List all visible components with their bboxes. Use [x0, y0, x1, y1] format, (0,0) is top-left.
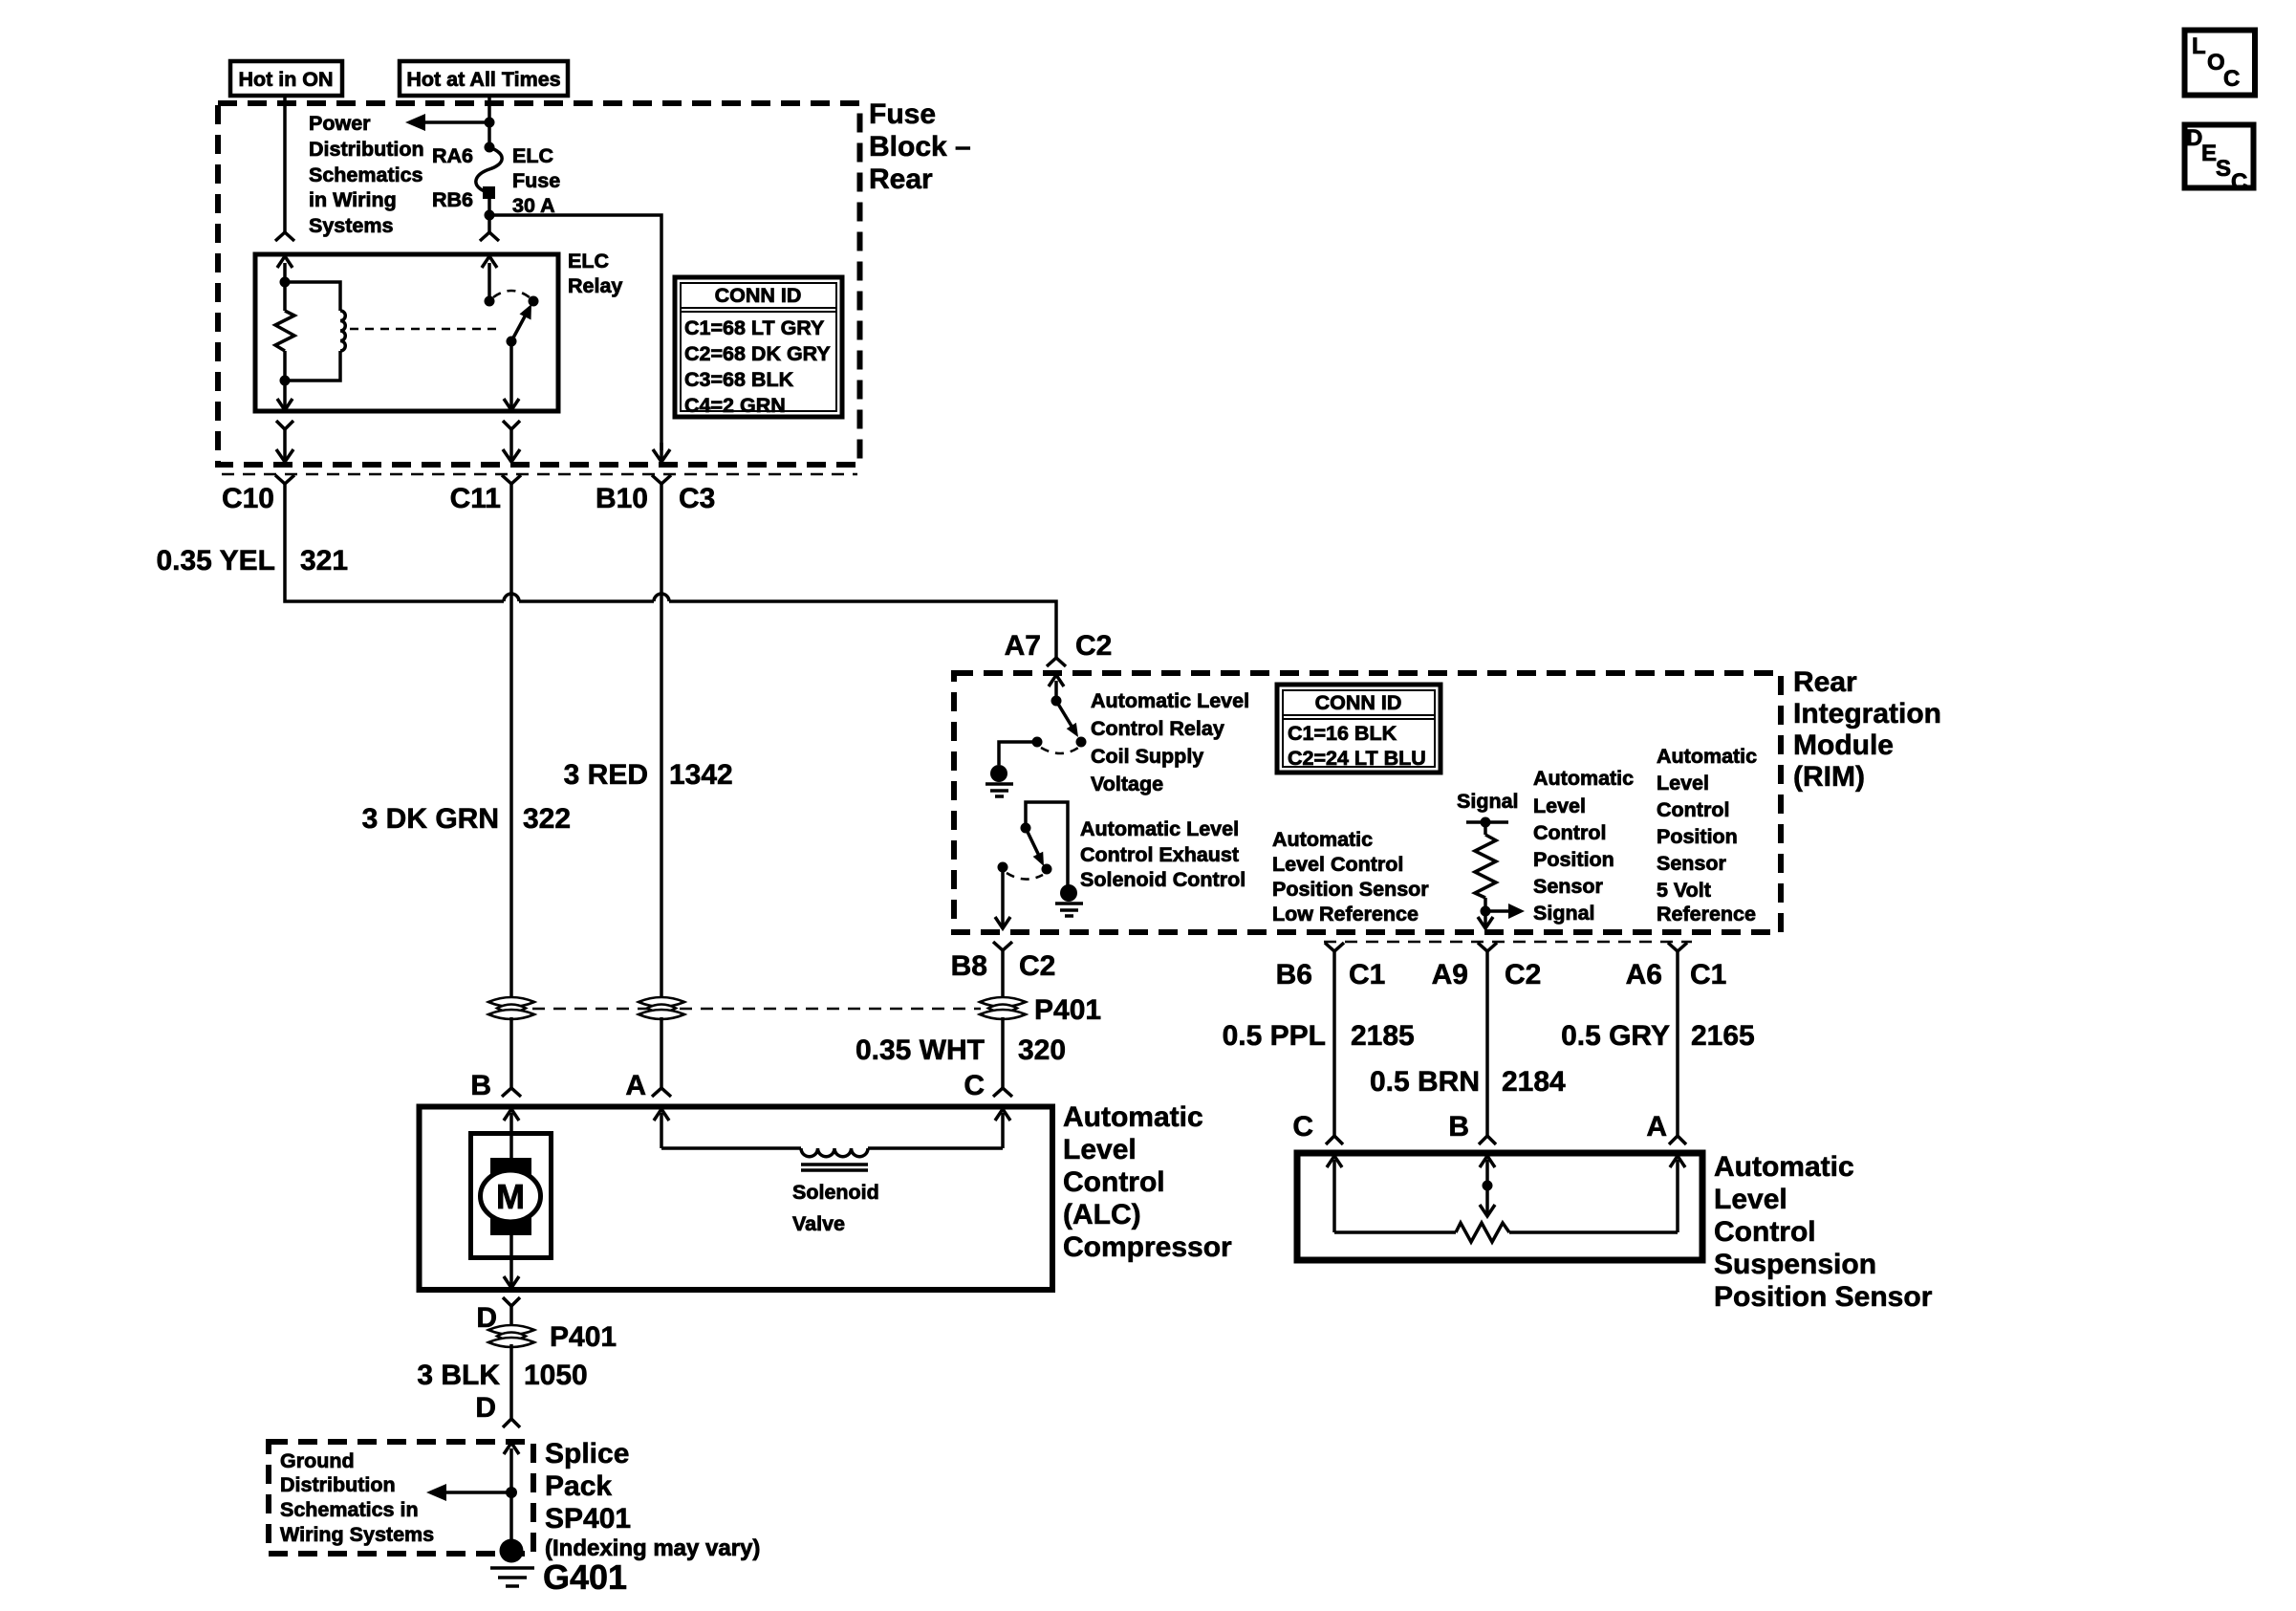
svg-text:RA6: RA6	[432, 144, 473, 167]
connector chevron A6/C1	[1668, 943, 1687, 951]
sensor C leg	[1332, 1160, 1336, 1232]
label Rear Integration Module (RIM)	[1793, 666, 1941, 793]
svg-text:5 Volt: 5 Volt	[1657, 879, 1711, 902]
inline connector P401 (B10 wire)	[639, 997, 684, 1019]
wire motor out	[509, 1235, 513, 1288]
svg-text:321: 321	[300, 545, 348, 577]
wire C11 down	[509, 484, 513, 998]
wire power distribution arrow	[417, 120, 489, 124]
connector chevron at A7	[1047, 658, 1066, 666]
relay switch: entry arrow	[487, 263, 491, 301]
text Automatic Level Control Exhaust Solenoid Control	[1080, 817, 1245, 891]
RIM dashed box	[954, 673, 1781, 932]
svg-text:Hot in ON: Hot in ON	[238, 68, 333, 91]
svg-text:A6: A6	[1626, 959, 1662, 991]
dashed arc exhaust	[1007, 873, 1043, 880]
svg-text:Schematics in: Schematics in	[280, 1498, 419, 1521]
svg-text:Solenoid: Solenoid	[792, 1181, 879, 1204]
svg-text:G401: G401	[543, 1557, 627, 1597]
thin dashed connector line under RIM	[1324, 941, 1692, 944]
svg-text:C2=68 DK GRY: C2=68 DK GRY	[684, 342, 831, 365]
label Splice Pack SP401 (Indexing may vary)	[545, 1438, 760, 1561]
svg-text:2185: 2185	[1351, 1020, 1415, 1052]
connector chevron C11	[502, 475, 521, 484]
signal arrow right	[1485, 909, 1512, 913]
svg-text:A7: A7	[1005, 630, 1041, 662]
svg-text:0.35 YEL: 0.35 YEL	[156, 545, 275, 577]
svg-text:Pack: Pack	[545, 1470, 612, 1502]
node exhaust output	[998, 862, 1008, 873]
node splice junction	[506, 1487, 517, 1498]
svg-text:D: D	[2186, 125, 2202, 151]
wire Hot at All Times drop	[487, 96, 491, 147]
text Power Distribution Schematics	[309, 112, 424, 237]
svg-text:Schematics: Schematics	[309, 163, 423, 186]
svg-text:C: C	[2231, 169, 2247, 195]
svg-text:Suspension: Suspension	[1714, 1249, 1876, 1280]
connector chevrons into compressor	[502, 1088, 521, 1097]
svg-text:Automatic: Automatic	[1272, 828, 1373, 851]
CONN ID box (RIM)	[1277, 685, 1440, 773]
svg-text:Position Sensor: Position Sensor	[1272, 878, 1429, 901]
node switch common	[485, 296, 495, 307]
svg-text:C1: C1	[1349, 959, 1385, 991]
dashed arc	[1041, 748, 1078, 753]
svg-text:CONN ID: CONN ID	[715, 284, 802, 307]
compressor A entry arrow / solenoid valve	[660, 1113, 663, 1148]
svg-text:0.5 PPL: 0.5 PPL	[1223, 1020, 1326, 1052]
svg-text:0.5 BRN: 0.5 BRN	[1370, 1066, 1480, 1098]
svg-text:Control: Control	[1063, 1166, 1165, 1198]
svg-text:C4=2 GRN: C4=2 GRN	[684, 394, 786, 417]
svg-text:C3=68 BLK: C3=68 BLK	[684, 368, 794, 391]
svg-text:3 DK GRN: 3 DK GRN	[362, 803, 499, 835]
svg-text:Position: Position	[1657, 825, 1738, 848]
relay box	[255, 254, 558, 411]
svg-text:Distribution: Distribution	[309, 138, 424, 161]
node signal out	[1481, 906, 1491, 917]
svg-text:S: S	[2216, 156, 2231, 182]
svg-text:SP401: SP401	[545, 1503, 631, 1535]
CONN ID box (fuse block)	[675, 277, 842, 417]
svg-text:322: 322	[523, 803, 571, 835]
svg-text:Wiring Systems: Wiring Systems	[280, 1523, 434, 1546]
label ELC Relay	[568, 250, 622, 297]
svg-text:Compressor: Compressor	[1063, 1231, 1232, 1263]
ground (exhaust)	[1060, 884, 1077, 902]
wire relay switch output below box	[503, 421, 520, 429]
svg-text:Voltage: Voltage	[1091, 773, 1163, 795]
wires down to compressor	[509, 1017, 513, 1088]
svg-text:in Wiring: in Wiring	[309, 188, 397, 211]
connector chevrons into suspension sensor	[1326, 1136, 1343, 1144]
connector chevron into relay (left)	[275, 232, 294, 241]
svg-text:Control: Control	[1533, 821, 1606, 844]
bus wire to RIM	[669, 601, 1056, 658]
Hot in ON box	[230, 61, 342, 96]
node coil bottom	[280, 376, 291, 386]
sensor A leg	[1676, 1160, 1679, 1232]
wire switch output	[509, 341, 513, 408]
label Automatic Level Control Suspension Position Sensor	[1714, 1151, 1933, 1313]
svg-text:B: B	[470, 1070, 491, 1101]
svg-text:Position Sensor: Position Sensor	[1714, 1281, 1933, 1313]
bus wire segment	[519, 599, 654, 603]
hop over C11 wire	[504, 594, 519, 601]
label Fuse Block - Rear	[869, 98, 971, 195]
splice pack dashed box	[269, 1442, 533, 1554]
label Automatic Level Control (ALC) Compressor	[1063, 1101, 1232, 1263]
ground (coil supply)	[990, 765, 1007, 782]
node power junction	[485, 118, 495, 128]
svg-text:B8: B8	[951, 950, 987, 982]
wire contact to ground	[999, 742, 1037, 765]
svg-text:C2: C2	[1019, 950, 1055, 982]
svg-text:E: E	[2201, 141, 2217, 166]
DESC box	[2185, 125, 2254, 196]
wire coil to bottom arrow	[283, 381, 287, 408]
compressor B entry arrow	[509, 1113, 513, 1134]
dashed arc between contacts	[493, 291, 530, 297]
node coil top	[280, 277, 291, 288]
svg-text:P401: P401	[1034, 994, 1101, 1026]
text Automatic Level Control Relay Coil Supply Voltage	[1091, 689, 1249, 795]
LOC box	[2185, 31, 2256, 96]
svg-text:C1=16 BLK: C1=16 BLK	[1288, 722, 1397, 745]
wire fuse output	[487, 192, 491, 232]
RIM entry arrow A7	[1054, 681, 1058, 701]
svg-text:2165: 2165	[1691, 1020, 1755, 1052]
svg-text:D: D	[475, 1392, 496, 1424]
text Automatic Level Control Position Sensor 5 Volt Reference	[1657, 745, 1757, 925]
svg-text:Sensor: Sensor	[1533, 875, 1604, 898]
svg-text:Signal: Signal	[1533, 902, 1595, 925]
connector chevron C10	[275, 475, 294, 484]
wire D below compressor	[503, 1297, 520, 1306]
svg-text:C: C	[964, 1070, 985, 1101]
svg-text:A9: A9	[1432, 959, 1468, 991]
svg-text:Position: Position	[1533, 848, 1614, 871]
relay armature arrow	[511, 316, 525, 341]
inline connector P401 (ground wire)	[488, 1325, 534, 1347]
svg-text:Ground: Ground	[280, 1449, 355, 1472]
node contact	[1076, 737, 1087, 748]
svg-text:Systems: Systems	[309, 214, 393, 237]
splice ball SP401	[500, 1539, 524, 1563]
position sensor signal tap	[1466, 820, 1508, 824]
wire below P401	[509, 1344, 513, 1419]
connector chevron into relay (fuse leg)	[480, 232, 499, 241]
switch arm (coil supply)	[1056, 701, 1072, 728]
svg-text:Valve: Valve	[792, 1212, 845, 1235]
svg-text:Integration: Integration	[1793, 698, 1941, 729]
svg-text:C1: C1	[1690, 959, 1726, 991]
arrow down at fuse block border (B10)	[653, 449, 670, 462]
svg-text:Automatic Level: Automatic Level	[1091, 689, 1249, 712]
connector chevron B6/C1	[1325, 943, 1344, 951]
svg-text:3 BLK: 3 BLK	[417, 1360, 500, 1391]
svg-text:B10: B10	[596, 483, 648, 514]
svg-text:0.5 GRY: 0.5 GRY	[1561, 1020, 1670, 1052]
svg-text:O: O	[2207, 50, 2225, 76]
svg-text:2184: 2184	[1502, 1066, 1566, 1098]
svg-text:(ALC): (ALC)	[1063, 1199, 1141, 1230]
wire C10 to bus	[285, 484, 504, 601]
svg-text:Relay: Relay	[568, 274, 622, 297]
wire feeder to B10	[489, 215, 661, 450]
svg-text:Module: Module	[1793, 729, 1894, 761]
wire B8 down	[1001, 950, 1005, 998]
svg-text:Automatic: Automatic	[1714, 1151, 1854, 1183]
wires sensor three down	[1332, 951, 1336, 1136]
svg-text:RB6: RB6	[432, 188, 473, 211]
svg-text:ELC: ELC	[512, 144, 553, 167]
connector chevron C3	[652, 475, 671, 484]
svg-text:Rear: Rear	[1793, 666, 1857, 698]
text Ground Distribution Schematics in Wiring Systems	[280, 1449, 434, 1546]
dashed mechanical link	[350, 328, 503, 331]
svg-text:C2: C2	[1075, 630, 1112, 662]
svg-text:Control: Control	[1714, 1216, 1816, 1248]
relay coil	[285, 282, 340, 311]
wire relay left output below box	[276, 421, 293, 429]
svg-text:ELC: ELC	[568, 250, 609, 272]
svg-text:P401: P401	[550, 1321, 617, 1353]
svg-text:320: 320	[1018, 1034, 1066, 1066]
relay coil branch: entry arrow left	[283, 263, 287, 282]
compressor C entry arrow	[1001, 1113, 1005, 1148]
sensor resistor	[1334, 1230, 1456, 1234]
svg-text:Level: Level	[1657, 772, 1709, 795]
svg-text:L: L	[2192, 33, 2206, 59]
exhaust solenoid switch	[1026, 802, 1068, 885]
svg-text:Control Relay: Control Relay	[1091, 717, 1224, 740]
ALC compressor box	[420, 1107, 1053, 1291]
solenoid coil	[801, 1148, 868, 1157]
svg-text:C10: C10	[222, 483, 274, 514]
svg-text:C11: C11	[450, 483, 501, 514]
svg-text:Automatic: Automatic	[1657, 745, 1757, 768]
svg-text:Automatic Level: Automatic Level	[1080, 817, 1239, 840]
svg-text:B: B	[1448, 1111, 1469, 1143]
svg-text:C2=24 LT BLU: C2=24 LT BLU	[1288, 747, 1426, 770]
svg-text:Level: Level	[1714, 1184, 1787, 1215]
svg-text:C: C	[2223, 66, 2240, 92]
wire Hot in ON drop	[283, 96, 287, 232]
svg-text:C3: C3	[679, 483, 715, 514]
ground G401	[490, 1566, 534, 1570]
connector chevron A9/C2	[1478, 943, 1497, 951]
fuse F1 ELC Fuse 30A	[485, 142, 495, 153]
svg-text:1342: 1342	[669, 759, 733, 791]
node switch NO contact	[529, 296, 539, 307]
svg-text:Low Reference: Low Reference	[1272, 903, 1419, 925]
svg-text:Control: Control	[1657, 798, 1729, 821]
label ELC Fuse 30 A	[512, 144, 560, 217]
svg-text:Sensor: Sensor	[1657, 852, 1727, 875]
inline connector P401 (C11 wire)	[488, 997, 534, 1019]
svg-text:1050: 1050	[524, 1360, 588, 1391]
svg-text:Fuse: Fuse	[869, 98, 936, 130]
svg-text:C1=68 LT GRY: C1=68 LT GRY	[684, 316, 824, 339]
svg-text:0.35 WHT: 0.35 WHT	[856, 1034, 985, 1066]
svg-text:Control Exhaust: Control Exhaust	[1080, 843, 1239, 866]
svg-text:C2: C2	[1505, 959, 1541, 991]
suspension position sensor box	[1297, 1153, 1702, 1260]
arrow down at RIM border	[1478, 917, 1493, 928]
svg-text:Solenoid Control: Solenoid Control	[1080, 868, 1245, 891]
svg-text:Coil Supply: Coil Supply	[1091, 745, 1203, 768]
node exhaust arm top	[1021, 823, 1031, 834]
svg-text:Automatic: Automatic	[1063, 1101, 1203, 1133]
wire to G401	[509, 1492, 513, 1541]
svg-text:Distribution: Distribution	[280, 1473, 396, 1496]
node armature pivot	[507, 337, 517, 347]
svg-text:Level: Level	[1533, 795, 1586, 817]
svg-text:3 RED: 3 RED	[564, 759, 648, 791]
svg-text:C: C	[1292, 1111, 1313, 1143]
wire B10/C3 down	[660, 484, 663, 998]
resistor (relay coil suppression)	[283, 282, 287, 311]
splice entry arrow	[509, 1448, 513, 1492]
svg-text:(Indexing may vary): (Indexing may vary)	[545, 1535, 760, 1561]
ground distribution arrow	[438, 1491, 511, 1494]
svg-text:CONN ID: CONN ID	[1315, 691, 1402, 714]
thin dashed connector line under fuse block	[222, 473, 857, 476]
resistor (position sensor)	[1484, 822, 1487, 835]
inline connector P401 (B8 wire)	[980, 997, 1026, 1019]
Hot at All Times box	[400, 61, 568, 96]
P401 dashed line	[511, 1008, 981, 1011]
text Automatic Level Control Position Sensor Low Reference	[1272, 828, 1429, 925]
svg-text:A: A	[625, 1070, 646, 1101]
svg-text:B6: B6	[1276, 959, 1312, 991]
svg-text:Level: Level	[1063, 1134, 1137, 1165]
svg-text:A: A	[1646, 1111, 1667, 1143]
switch arm (exhaust)	[1026, 828, 1039, 856]
text Automatic Level Control Position Sensor Signal	[1533, 767, 1634, 925]
svg-text:Power: Power	[309, 112, 371, 135]
node exhaust contact	[1042, 864, 1052, 875]
connector chevron B8	[993, 942, 1012, 950]
svg-text:Signal: Signal	[1457, 790, 1519, 813]
svg-text:Level Control: Level Control	[1272, 853, 1403, 876]
svg-text:Automatic: Automatic	[1533, 767, 1634, 790]
svg-text:Reference: Reference	[1657, 903, 1756, 925]
connector chevron into splice pack	[503, 1419, 520, 1427]
node relay coil supply top	[1051, 696, 1062, 707]
wire exhaust output down	[1001, 867, 1005, 928]
Fuse Block - Rear dashed box	[218, 103, 860, 465]
svg-text:Splice: Splice	[545, 1438, 629, 1469]
hop over B10 wire	[654, 594, 669, 601]
svg-text:M: M	[496, 1177, 525, 1216]
sensor B leg wiper	[1485, 1160, 1489, 1186]
svg-text:(RIM): (RIM)	[1793, 761, 1865, 793]
svg-text:Rear: Rear	[869, 163, 933, 195]
motor M1	[471, 1134, 552, 1258]
svg-text:Hot at All Times: Hot at All Times	[406, 68, 560, 91]
svg-text:Fuse: Fuse	[512, 169, 560, 192]
svg-text:Block –: Block –	[869, 131, 971, 163]
node fuse output junction	[485, 210, 495, 221]
